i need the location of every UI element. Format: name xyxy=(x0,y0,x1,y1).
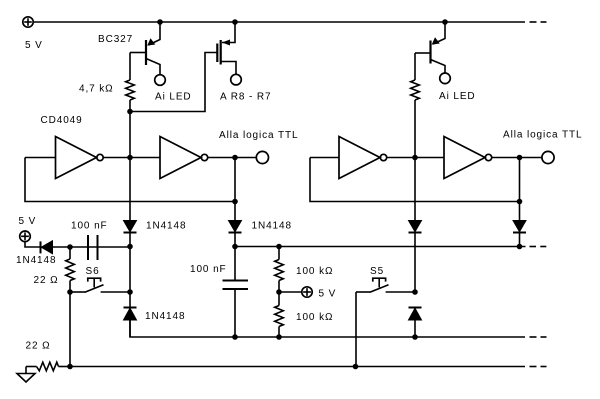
ground rail wire xyxy=(70,366,525,368)
svg-text:CD4049: CD4049 xyxy=(41,115,83,126)
svg-text:5 V: 5 V xyxy=(19,216,37,227)
svg-text:1N4148: 1N4148 xyxy=(16,255,56,266)
svg-text:100 kΩ: 100 kΩ xyxy=(296,266,333,277)
svg-text:Alla logica TTL: Alla logica TTL xyxy=(503,130,582,141)
svg-text:4,7 kΩ: 4,7 kΩ xyxy=(79,84,114,95)
resistor R3 100k top xyxy=(275,247,284,293)
diode D1 1N4148 (down) xyxy=(124,221,137,247)
junction output node x518.5 xyxy=(517,155,523,161)
wire U1A out to U1B in xyxy=(103,157,160,159)
lower rail dashes xyxy=(530,336,547,338)
svg-text:22 Ω: 22 Ω xyxy=(26,341,51,352)
feedback wire right block xyxy=(310,158,520,202)
svg-text:S6: S6 xyxy=(86,266,100,277)
output terminal circle right xyxy=(542,151,554,163)
junction mid rail right end xyxy=(517,244,523,250)
diode D6 (down) right block xyxy=(513,221,526,247)
inverter U1A xyxy=(56,137,104,179)
wire U2B out to output terminal xyxy=(492,157,542,159)
mid 5V supply terminal xyxy=(302,287,312,297)
wire S6 junction down to ground rail xyxy=(69,292,71,367)
svg-text:Ai LED: Ai LED xyxy=(439,91,476,102)
inverter U1A input wire xyxy=(25,157,56,159)
junction x130 mid rail xyxy=(127,244,133,250)
diode D3 1N4148 (up) xyxy=(124,308,137,338)
svg-text:1N4148: 1N4148 xyxy=(252,221,292,232)
wire U1B out to output terminal xyxy=(208,157,257,159)
svg-text:S5: S5 xyxy=(370,266,384,277)
resistor R5 22 Ohm horizontal xyxy=(26,362,70,371)
svg-text:Alla logica TTL: Alla logica TTL xyxy=(219,130,298,141)
LED terminal circle Q3 xyxy=(440,73,451,84)
svg-text:BC327: BC327 xyxy=(98,34,133,45)
junction S6 right xyxy=(127,289,133,295)
svg-text:100 nF: 100 nF xyxy=(190,264,227,275)
feedback wire left block xyxy=(25,158,235,202)
resistor R1 4,7k xyxy=(126,53,135,112)
junction feedback x518.5 xyxy=(517,199,523,205)
inverter U2B xyxy=(444,137,492,179)
inverter U2A input wire xyxy=(310,157,339,159)
LED terminal circle Q1 (Ai LED) xyxy=(155,75,166,86)
inverter U2A xyxy=(339,137,387,179)
junction output node x235 xyxy=(232,155,238,161)
junction top rail Q1 xyxy=(157,19,163,25)
switch S6 xyxy=(70,278,130,292)
svg-text:100 nF: 100 nF xyxy=(71,221,108,232)
ground xyxy=(17,367,35,383)
junction ground rail S5 xyxy=(353,364,359,370)
junction x70 mid rail xyxy=(67,244,73,250)
junction lower rail x415 xyxy=(412,334,418,340)
diode D2 1N4148 (down) xyxy=(229,221,242,247)
junction 100k top xyxy=(276,244,282,250)
inverter U1B xyxy=(160,137,208,179)
junction feedback x235 xyxy=(232,199,238,205)
wire x518.5 down to diode D6 xyxy=(519,158,521,221)
wire x130 mid rail down to S6 xyxy=(129,247,131,308)
junction x415 inverter node xyxy=(412,155,418,161)
mid rail left segment xyxy=(70,246,130,248)
top 5V supply terminal xyxy=(23,17,33,27)
wire x415 down through feedback xyxy=(414,158,416,221)
svg-text:5 V: 5 V xyxy=(319,289,337,300)
top rail dashes xyxy=(530,21,547,23)
wire to mid 5V terminal xyxy=(279,291,301,293)
junction inverter node x130 xyxy=(127,155,133,161)
svg-text:Ai LED: Ai LED xyxy=(155,92,192,103)
bottom-left 5V supply terminal xyxy=(20,231,40,247)
resistor R4 100k bottom xyxy=(275,292,284,337)
mid rail dashes xyxy=(530,246,547,248)
transistor Q1 BC327 xyxy=(130,22,160,75)
junction 100k middle xyxy=(276,289,282,295)
transistor Q2 (to R8-R7 driver) xyxy=(131,22,236,112)
lower rail wire xyxy=(130,320,525,337)
wire x235 down to diode D2 xyxy=(234,158,236,221)
switch S5 xyxy=(356,278,415,292)
junction node under R1 xyxy=(127,109,133,115)
junction lower rail x279 xyxy=(276,334,282,340)
junction ground rail x70 xyxy=(67,364,73,370)
wire x130 vertical R1 to inverters xyxy=(129,112,131,158)
wire x235 mid rail to capacitor C2 xyxy=(234,247,236,281)
ground rail dashes xyxy=(530,366,547,368)
diode D7 (up) right block xyxy=(409,308,422,338)
output terminal circle left xyxy=(256,151,268,163)
junction top rail Q3 xyxy=(442,19,448,25)
junction top rail Q2 xyxy=(232,19,238,25)
top rail wire xyxy=(33,21,525,23)
diode D5 (down) right block xyxy=(409,221,422,293)
mid rail right segment xyxy=(235,246,526,248)
terminal circle Q2 (A R8 - R7) xyxy=(231,74,242,85)
junction S6 left xyxy=(67,289,73,295)
junction S5 right xyxy=(412,289,418,295)
diode D4 1N4148 (left) xyxy=(41,241,71,254)
junction x235 mid rail xyxy=(232,244,238,250)
wire S5 left down to ground rail xyxy=(355,292,357,367)
svg-text:A R8 - R7: A R8 - R7 xyxy=(220,92,271,103)
svg-text:1N4148: 1N4148 xyxy=(145,311,185,322)
wire U2A out to U2B in xyxy=(387,157,444,159)
junction lower rail x235 xyxy=(232,334,238,340)
capacitor C2 100nF vertical xyxy=(223,281,249,338)
resistor R2 22 Ohm vertical xyxy=(66,247,75,292)
wire x130 inverters down to diode D1 xyxy=(129,158,131,221)
svg-text:1N4148: 1N4148 xyxy=(146,221,186,232)
svg-text:100 kΩ: 100 kΩ xyxy=(296,312,333,323)
svg-text:22 Ω: 22 Ω xyxy=(34,275,59,286)
transistor Q3 right (PNP) xyxy=(415,22,445,73)
resistor R6 right 4,7k xyxy=(411,53,420,158)
svg-text:5 V: 5 V xyxy=(25,40,43,51)
capacitor C1 100nF horizontal xyxy=(88,235,98,260)
